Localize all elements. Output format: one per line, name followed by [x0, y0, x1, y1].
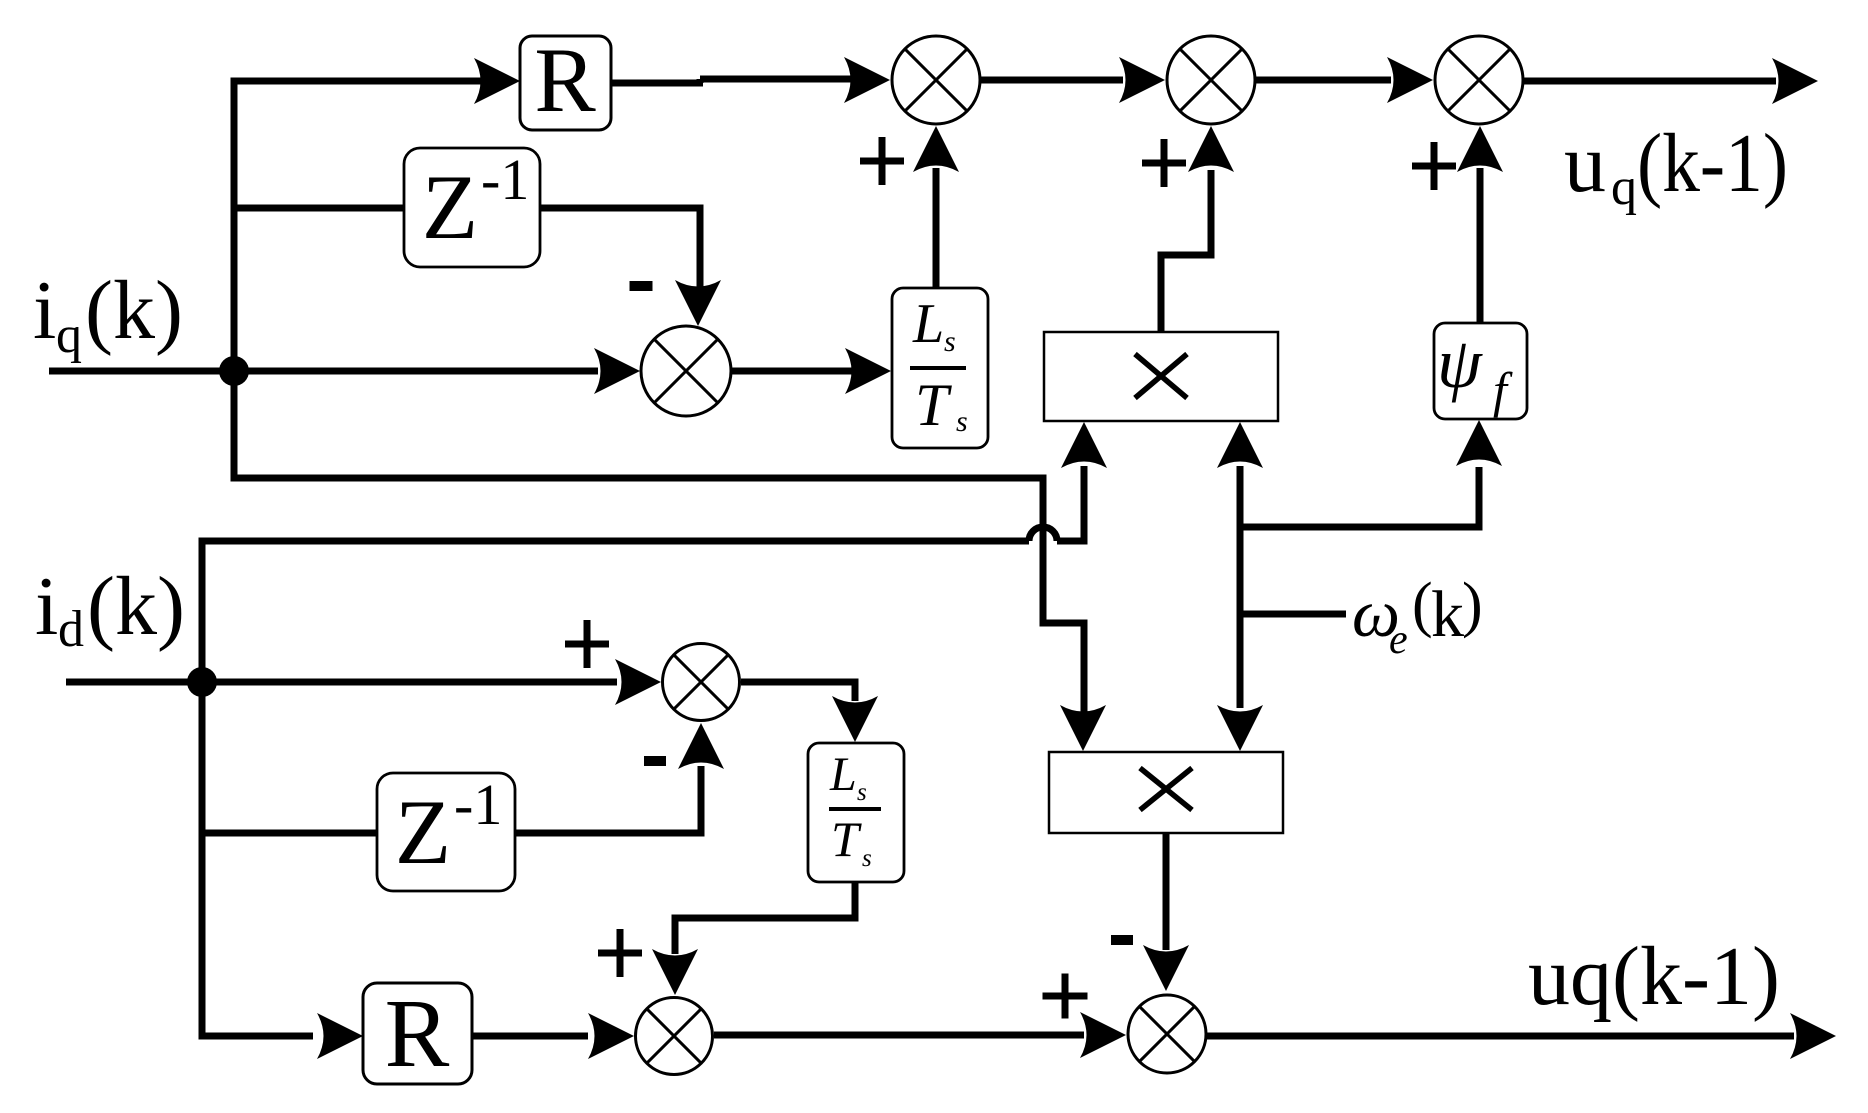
svg-text:-1: -1 [481, 147, 529, 212]
svg-text:Z: Z [422, 156, 478, 258]
svg-text:): ) [1462, 571, 1483, 639]
svg-text:q: q [56, 307, 82, 364]
svg-text:s: s [857, 779, 867, 806]
svg-text:L: L [912, 293, 944, 355]
svg-text:k: k [1431, 578, 1464, 651]
svg-text:e: e [1389, 617, 1408, 663]
svg-text:(k): (k) [85, 264, 183, 357]
svg-text:ψ: ψ [1437, 323, 1483, 403]
svg-text:-1: -1 [454, 772, 502, 837]
svg-text:uq(k-1): uq(k-1) [1528, 930, 1780, 1023]
svg-text:(k-1): (k-1) [1637, 117, 1788, 210]
svg-text:s: s [944, 325, 956, 358]
svg-text:(: ( [1412, 571, 1433, 639]
svg-text:L: L [829, 748, 857, 801]
svg-text:d: d [58, 601, 84, 658]
svg-text:R: R [385, 980, 450, 1087]
svg-text:i: i [35, 560, 58, 653]
svg-text:s: s [862, 845, 872, 872]
svg-text:T: T [915, 372, 952, 438]
svg-text:s: s [956, 405, 968, 438]
svg-text:R: R [534, 29, 596, 131]
svg-text:q: q [1611, 159, 1637, 216]
svg-text:Z: Z [395, 781, 451, 883]
svg-text:i: i [33, 264, 56, 357]
svg-text:(k): (k) [87, 560, 185, 653]
svg-text:u: u [1564, 117, 1606, 210]
svg-text:T: T [831, 811, 862, 867]
